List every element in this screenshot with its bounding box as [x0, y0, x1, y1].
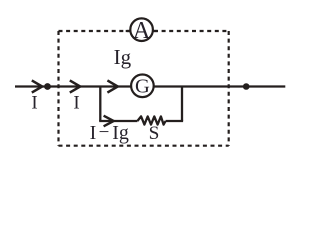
- node: junction dot right: [243, 83, 250, 90]
- wire stub left of ammeter: [126, 30, 130, 32]
- wire: shunt branch bottom: [99, 120, 137, 122]
- resistor S (shunt) zigzag: [137, 116, 165, 124]
- left edge: [57, 31, 59, 146]
- galvanometer G circle U1: [131, 75, 154, 98]
- svg-text:Ig: Ig: [112, 122, 129, 144]
- arrow on left lead (current I): [32, 80, 42, 92]
- svg-text:G: G: [135, 76, 150, 98]
- svg-text:Ig: Ig: [114, 45, 132, 69]
- top edge left of A: [59, 30, 130, 32]
- arrow on shunt branch (current I-Ig): [104, 116, 114, 127]
- arrow on galvanometer branch (current Ig): [107, 80, 117, 92]
- top edge right of A: [154, 30, 229, 32]
- wire: shunt branch bottom right: [166, 120, 184, 122]
- svg-text:A: A: [133, 18, 151, 44]
- node: junction dot left: [44, 83, 51, 90]
- svg-text:−: −: [99, 122, 110, 143]
- dashed enclosure box (ammeter boundary): [59, 31, 229, 146]
- wire stub right of ammeter: [154, 30, 158, 32]
- svg-text:S: S: [149, 123, 160, 144]
- ammeter A circle M1: [130, 18, 153, 41]
- svg-text:I: I: [90, 122, 97, 144]
- arrow on wire after entering box (current I): [70, 80, 80, 92]
- svg-text:I: I: [31, 93, 37, 114]
- bottom edge: [59, 145, 229, 147]
- wire: main horizontal lead: [15, 85, 285, 87]
- wire: right branch vertical: [181, 87, 183, 122]
- wire: left branch vertical: [99, 87, 101, 122]
- svg-text:I: I: [73, 93, 79, 114]
- right edge: [228, 31, 230, 146]
